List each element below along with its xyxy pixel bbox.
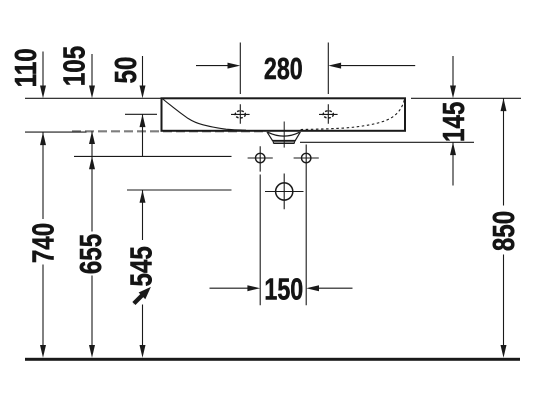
- arrowhead 150 left (points right): [247, 285, 260, 291]
- svg-text:545: 545: [124, 246, 159, 286]
- drain centerline: [283, 122, 285, 148]
- top reference line left segment: [25, 97, 162, 99]
- drain cover step lines: [272, 140, 295, 143]
- dim column 145 lower shaft: [452, 142, 454, 185]
- dim column 105 shaft: [91, 131, 93, 156]
- drain hole circle: [276, 183, 293, 200]
- drain cover trapezoid outer: [267, 132, 300, 141]
- 280 dimension shafts: [196, 65, 415, 67]
- arrowhead 105 down: [89, 86, 95, 99]
- svg-text:105: 105: [57, 46, 92, 86]
- top reference line right segment: [411, 97, 521, 99]
- svg-text:50: 50: [108, 57, 143, 84]
- dashed hidden edge line (gray): [72, 130, 263, 132]
- arrowhead 655 up: [89, 156, 95, 169]
- basin inner bowl curve right (dashed): [300, 100, 404, 130]
- 145 lower reference line: [300, 141, 474, 143]
- svg-text:850: 850: [486, 211, 521, 251]
- dim column 545 mid shaft: [142, 190, 144, 240]
- dim column 105/655 upper shaft: [91, 54, 93, 87]
- 110 reference line: [25, 131, 87, 133]
- extension line left fixing hole down to 150 dim: [259, 146, 261, 305]
- dim column 655 mid shaft: [91, 156, 93, 231]
- 280 extension lines: [240, 43, 328, 95]
- floor line: [25, 358, 520, 361]
- dim column 50/545 upper shaft: [142, 56, 144, 87]
- fixing hole right crosshair: [294, 157, 319, 159]
- arrowhead 850 down at floor: [501, 345, 507, 358]
- arrowhead 50 up: [140, 114, 146, 127]
- fixing hole right circle: [302, 153, 311, 162]
- dim column 110/740 upper shaft: [42, 52, 44, 87]
- arrowhead 110 down: [40, 86, 46, 99]
- arrowhead 145 down: [450, 86, 456, 99]
- 50 reference line: [125, 113, 157, 115]
- dim column 740 lower shaft: [42, 265, 44, 348]
- arrowhead 850 up: [501, 98, 507, 111]
- 545 reference line: [127, 189, 232, 191]
- extension line right fixing hole down to 150 dim: [305, 145, 307, 306]
- arrowhead 110 up: [40, 132, 46, 145]
- drain cover inner arc: [268, 132, 299, 136]
- tap hole left crosshair: [231, 104, 250, 124]
- arrowhead 50 down: [140, 86, 146, 99]
- arrowhead 545 up: [140, 190, 146, 203]
- dim column 850 upper shaft: [503, 98, 505, 205]
- tap hole right crosshair: [319, 104, 338, 124]
- tap hole right dashed ellipse: [323, 111, 333, 118]
- drain hole crosshair: [265, 174, 304, 210]
- tap hole left dashed ellipse: [235, 111, 245, 118]
- dim column 850 lower shaft: [503, 255, 505, 348]
- fixing hole left circle: [256, 153, 265, 162]
- svg-text:110: 110: [8, 48, 43, 87]
- dim column 50 shaft: [142, 114, 144, 156]
- svg-text:740: 740: [26, 223, 61, 263]
- basin inner bowl curve left (solid): [162, 99, 246, 131]
- dim column 145 upper shaft: [452, 56, 454, 87]
- dim column 655 lower shaft: [91, 276, 93, 348]
- arrowhead 655 down at floor: [89, 345, 95, 358]
- dim column 545 lower shaft: [142, 305, 144, 348]
- svg-text:145: 145: [436, 102, 471, 142]
- svg-text:150: 150: [264, 271, 303, 306]
- fixing hole left crosshair: [248, 157, 273, 159]
- arrowhead 280 left (points right): [228, 63, 241, 69]
- dim column 110/740 mid shaft: [42, 132, 44, 219]
- svg-text:655: 655: [73, 234, 108, 274]
- arrowhead 150 right (points left): [306, 285, 319, 291]
- arrowhead 105 up: [89, 131, 95, 144]
- arrowhead 740 down at floor: [40, 345, 46, 358]
- svg-text:280: 280: [264, 51, 303, 86]
- 545 slope indicator arrow: [133, 287, 151, 305]
- basin outline: [162, 98, 406, 131]
- 150 dimension shafts: [210, 287, 353, 289]
- 655 reference line: [74, 155, 232, 157]
- arrowhead 145 up: [450, 142, 456, 155]
- arrowhead 280 right (points left): [328, 63, 341, 69]
- arrowhead 545 down at floor: [140, 345, 146, 358]
